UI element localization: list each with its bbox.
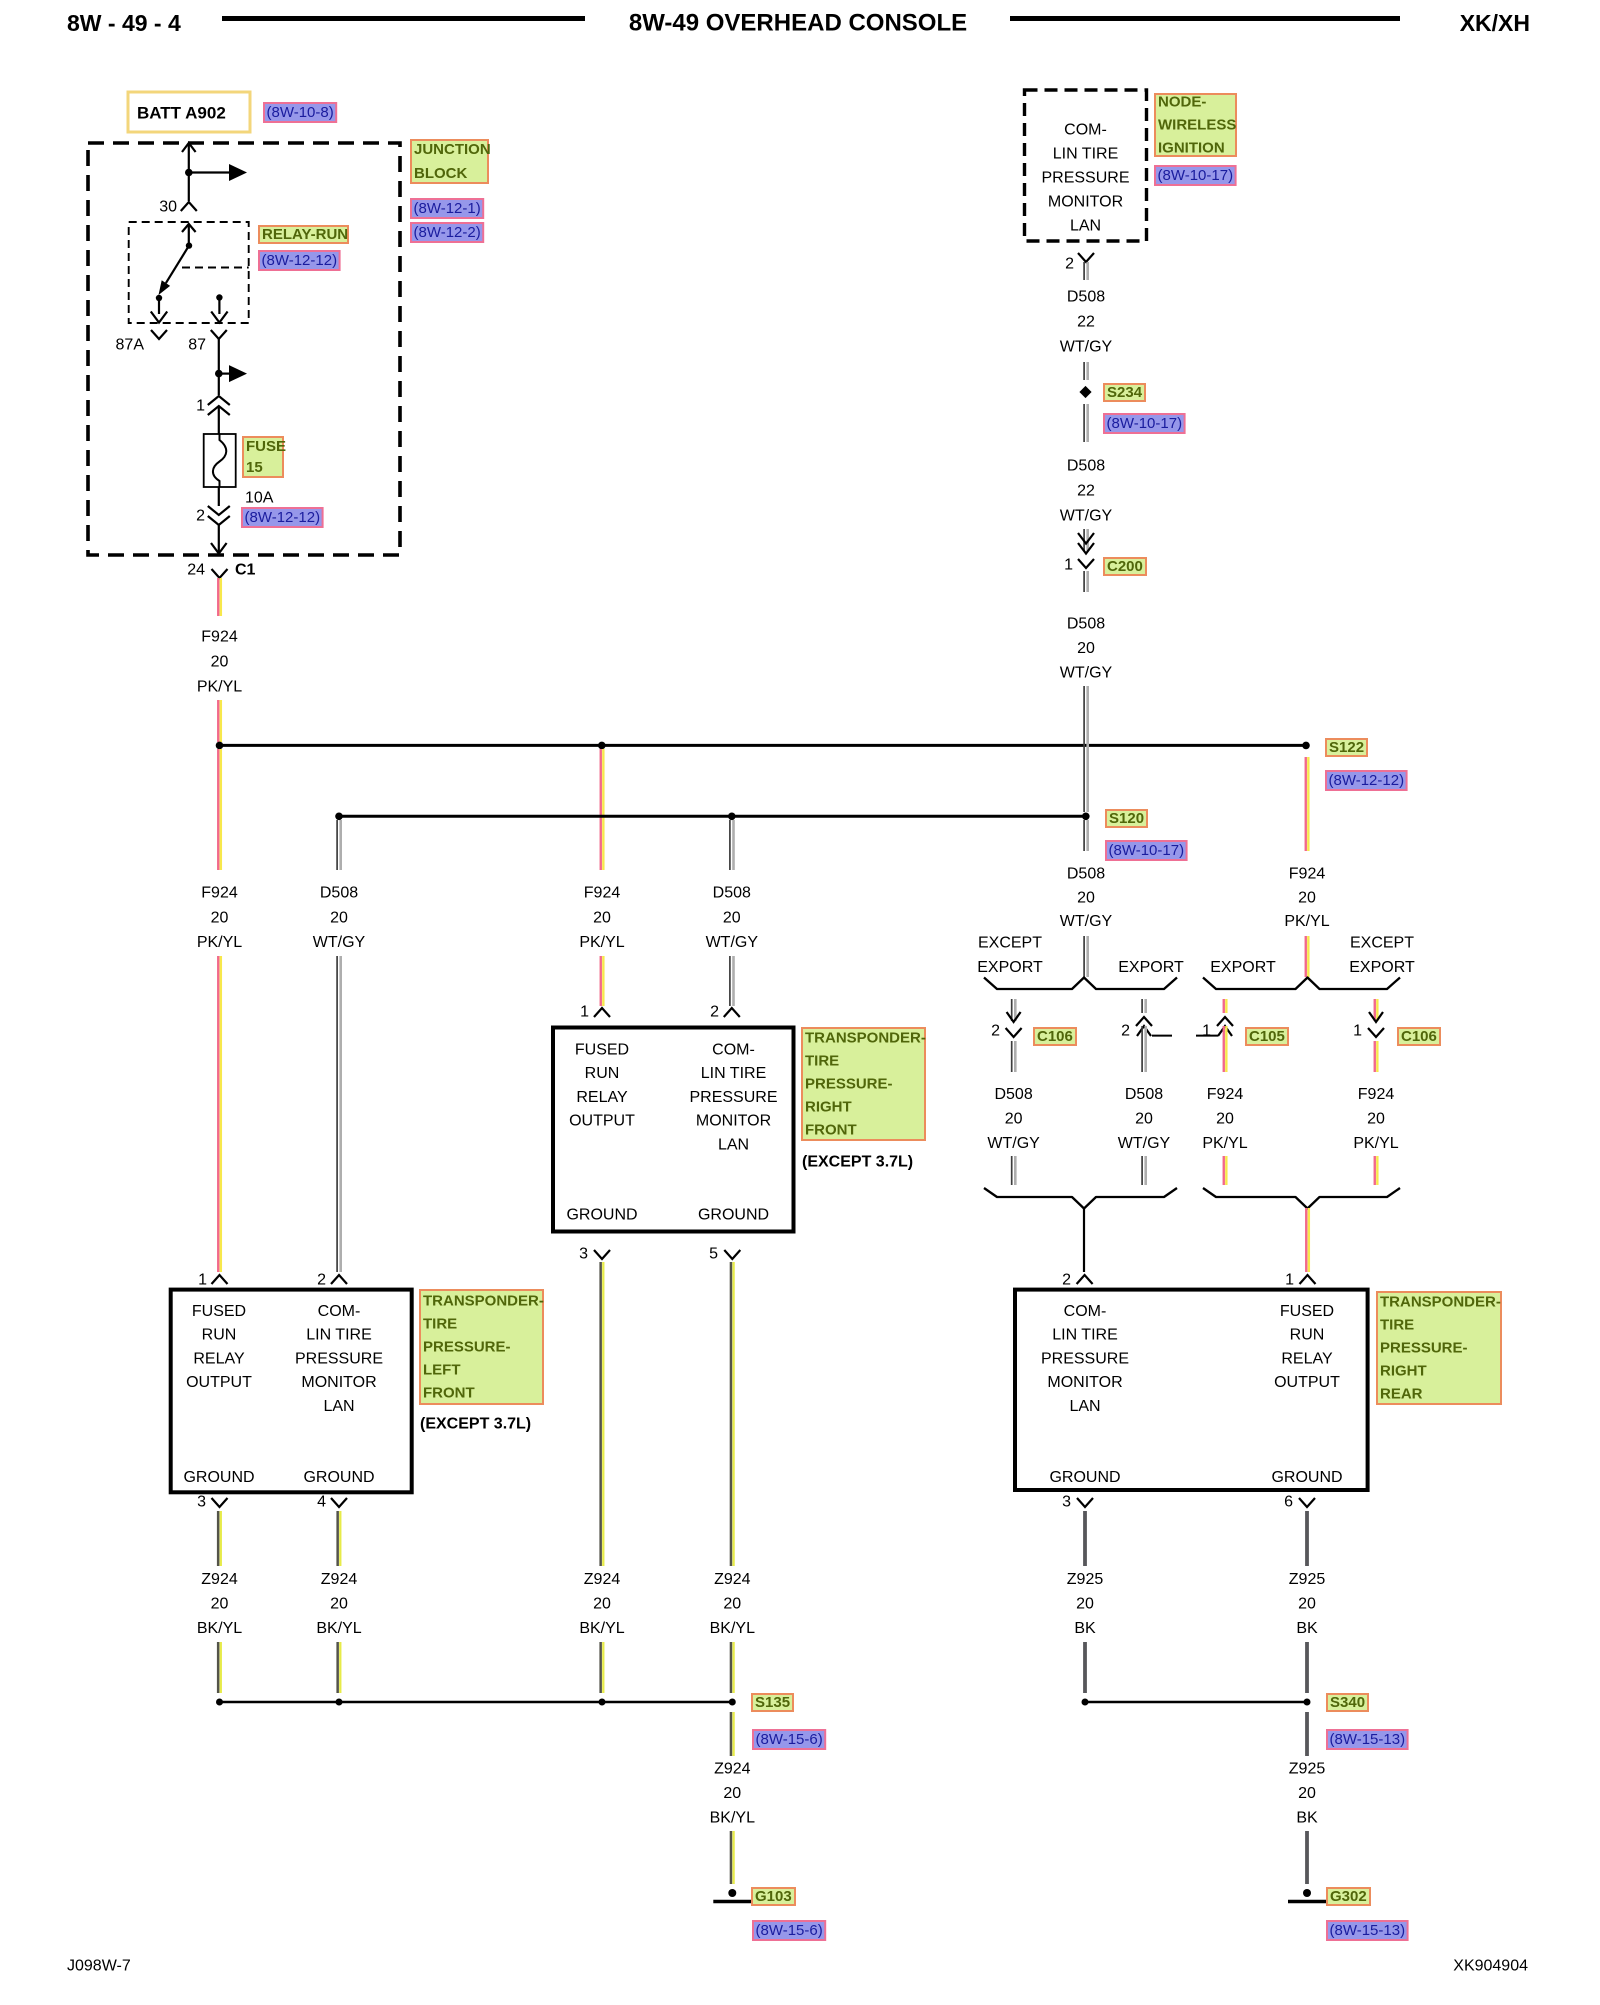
svg-text:OUTPUT: OUTPUT [186,1374,252,1391]
reference (8W-15-13) [1327,1730,1408,1749]
svg-text:PRESSURE-: PRESSURE- [1380,1340,1468,1357]
svg-text:Z925: Z925 [1289,1761,1326,1778]
relay switch arm [166,246,189,284]
svg-text:20: 20 [1135,1111,1153,1128]
svg-text:NODE-: NODE- [1158,94,1206,111]
relay contact 87 lead [216,294,222,300]
svg-text:S122: S122 [1329,739,1364,756]
svg-text:F924: F924 [1207,1086,1244,1103]
svg-text:PK/YL: PK/YL [1353,1135,1398,1152]
label TRANSPONDER-TIRE PRESSURE-RIGHT REAR [1377,1292,1501,1404]
svg-text:TRANSPONDER-: TRANSPONDER- [805,1030,926,1047]
wire D508 segment to pin 2 [336,956,338,1272]
svg-text:(8W-15-13): (8W-15-13) [1330,1922,1406,1939]
splice node [729,1699,736,1706]
svg-text:20: 20 [1298,890,1316,907]
svg-text:D508: D508 [1125,1086,1163,1103]
svg-text:D508: D508 [713,885,751,902]
svg-text:S340: S340 [1330,1694,1365,1711]
wire F924 segment to brace [1305,936,1307,977]
svg-text:C1: C1 [235,562,256,579]
reference (8W-15-13) [1327,1921,1408,1940]
wire Z925 segment pin 6 [1305,1511,1309,1566]
reference (8W-10-17) [1104,414,1185,433]
svg-text:Z924: Z924 [321,1571,358,1588]
svg-text:3: 3 [579,1246,588,1263]
svg-text:2: 2 [710,1004,719,1021]
splice S120 [1082,813,1090,821]
relay coil-side arrow up [182,224,196,232]
wire Z924 segment below S135 [730,1712,733,1756]
wire Z924 segment x=732.3 [730,1262,733,1566]
wire Z924 segment to ground bus [730,1642,733,1693]
svg-text:WT/GY: WT/GY [1060,508,1113,525]
wire F924 segment [217,700,219,742]
wire F924 segment to pin 1 [217,956,219,1272]
wire Z925 segment to ground bus [1305,1642,1309,1693]
brace split D508 [984,978,1177,990]
header rule right [1010,16,1400,21]
svg-text:F924: F924 [201,629,238,646]
svg-text:BK: BK [1074,1620,1096,1637]
svg-text:LAN: LAN [1069,1398,1100,1415]
svg-text:MONITOR: MONITOR [1048,194,1123,211]
wire Z925 segment below S340 [1305,1712,1309,1756]
reference (8W-10-8) [264,103,336,122]
svg-text:20: 20 [1298,1785,1316,1802]
svg-text:(EXCEPT 3.7L): (EXCEPT 3.7L) [420,1416,531,1433]
svg-text:3: 3 [1062,1494,1071,1511]
header rule left [222,16,585,21]
svg-text:FRONT: FRONT [423,1385,475,1402]
svg-text:EXCEPT: EXCEPT [1350,935,1414,952]
wire Z925 segment to ground [1305,1831,1309,1884]
svg-text:WT/GY: WT/GY [313,934,366,951]
wire D508 segment [1083,362,1085,380]
wire D508 segment from bus [729,820,731,870]
svg-text:2: 2 [196,508,205,525]
wire Z924 segment to ground [730,1831,733,1884]
node-wireless ignition module boundary [1025,90,1147,241]
svg-text:GROUND: GROUND [698,1207,769,1224]
label FUSE 15 [243,437,283,477]
svg-text:PK/YL: PK/YL [579,934,624,951]
svg-text:COM-: COM- [1064,1303,1107,1320]
wire Z924 segment x=339 [336,1511,339,1566]
branch wire D508 below C105 [1141,1026,1143,1072]
svg-text:LAN: LAN [323,1398,354,1415]
ground G302 [1303,1889,1311,1897]
battery feed box BATT A902 [128,92,250,132]
svg-text:(8W-15-6): (8W-15-6) [756,1922,823,1939]
svg-text:TRANSPONDER-: TRANSPONDER- [1380,1294,1501,1311]
splice node [1082,1699,1089,1706]
reference (8W-12-12) [242,508,323,527]
svg-text:TRANSPONDER-: TRANSPONDER- [423,1293,544,1310]
svg-text:WT/GY: WT/GY [987,1135,1040,1152]
wire D508 stub [1083,262,1085,280]
svg-text:PRESSURE: PRESSURE [1041,170,1129,187]
svg-text:Z925: Z925 [1289,1571,1326,1588]
svg-text:C106: C106 [1037,1028,1073,1045]
svg-text:C106: C106 [1401,1028,1437,1045]
wire link to C105 [1152,1035,1172,1037]
svg-text:20: 20 [593,1596,611,1613]
svg-text:(8W-15-13): (8W-15-13) [1330,1731,1406,1748]
reference (8W-12-2) [411,223,483,242]
svg-text:D508: D508 [1067,289,1105,306]
svg-text:20: 20 [1367,1111,1385,1128]
svg-text:IGNITION: IGNITION [1158,140,1225,157]
wire F924 segment to pin 1 [600,956,602,1006]
splice S135 [752,1694,793,1711]
wire Z924 segment to ground bus [599,1642,602,1693]
svg-text:BK/YL: BK/YL [710,1620,755,1637]
reference (8W-10-17) [1155,166,1236,185]
junction block boundary [88,143,400,555]
svg-text:LAN: LAN [718,1136,749,1153]
svg-text:RUN: RUN [1290,1327,1325,1344]
svg-text:D508: D508 [1067,458,1105,475]
svg-text:8W - 49 - 4: 8W - 49 - 4 [67,10,181,36]
svg-text:(8W-10-17): (8W-10-17) [1109,842,1185,859]
splice node on F924 bus [216,742,224,750]
branch wire D508 export [1141,999,1143,1013]
splice node [216,1699,223,1706]
wire D508 segment below S120 [1083,820,1085,851]
wire D508 merged to pin 2 [1083,1208,1085,1272]
wire F924 merged to pin 1 [1305,1208,1307,1272]
svg-text:BK/YL: BK/YL [316,1620,361,1637]
svg-text:FUSED: FUSED [192,1303,246,1320]
svg-text:30: 30 [159,199,177,216]
svg-text:PRESSURE: PRESSURE [1041,1350,1129,1367]
svg-text:G302: G302 [1330,1888,1367,1905]
svg-text:EXPORT: EXPORT [1210,959,1276,976]
svg-text:WT/GY: WT/GY [1118,1135,1171,1152]
wire D508 segment to pin 2 [729,956,731,1006]
svg-text:EXPORT: EXPORT [1349,959,1415,976]
svg-text:20: 20 [1076,1596,1094,1613]
svg-text:PK/YL: PK/YL [1284,913,1329,930]
svg-text:(8W-12-12): (8W-12-12) [1329,772,1405,789]
svg-text:C105: C105 [1249,1028,1285,1045]
svg-text:LIN TIRE: LIN TIRE [1053,146,1119,163]
svg-text:G103: G103 [755,1888,792,1905]
svg-text:GROUND: GROUND [183,1469,254,1486]
svg-text:LAN: LAN [1070,218,1101,235]
svg-text:TIRE: TIRE [805,1053,839,1070]
svg-text:1: 1 [1285,1272,1294,1289]
svg-text:1: 1 [580,1004,589,1021]
svg-text:22: 22 [1077,314,1095,331]
svg-text:COM-: COM- [1064,122,1107,139]
svg-text:RUN: RUN [585,1065,620,1082]
svg-text:BK/YL: BK/YL [579,1620,624,1637]
splice node to right front transponder [598,742,606,750]
wire 87 to fuse [218,339,220,374]
svg-text:(8W-15-6): (8W-15-6) [756,1731,823,1748]
svg-text:20: 20 [723,910,741,927]
svg-text:20: 20 [723,1785,741,1802]
svg-text:EXPORT: EXPORT [1118,959,1184,976]
branch wire F924 export [1223,999,1225,1013]
label JUNCTION BLOCK [411,140,488,183]
svg-text:20: 20 [211,910,229,927]
wire branch arrow right [189,171,229,173]
svg-text:2: 2 [1062,1272,1071,1289]
svg-text:(8W-10-8): (8W-10-8) [267,104,334,121]
branch wire D508 except-export [1011,999,1013,1021]
svg-text:FUSED: FUSED [1280,1303,1334,1320]
branch wire F924 below C105 [1223,1026,1225,1072]
svg-text:20: 20 [1216,1111,1234,1128]
svg-text:20: 20 [723,1596,741,1613]
relay common node [186,242,192,248]
splice S234 [1079,386,1091,398]
splice S122 [1302,742,1310,750]
svg-text:GROUND: GROUND [303,1469,374,1486]
svg-text:20: 20 [330,910,348,927]
svg-text:1: 1 [1064,557,1073,574]
svg-text:D508: D508 [320,885,358,902]
wire F924 segment below bus [217,749,219,870]
svg-text:20: 20 [593,910,611,927]
wire F924 segment below S122 [1305,757,1307,851]
svg-text:Z925: Z925 [1067,1571,1104,1588]
svg-text:FUSE: FUSE [246,438,286,455]
reference (8W-10-17) [1106,841,1187,860]
svg-text:2: 2 [991,1023,1000,1040]
svg-text:BLOCK: BLOCK [414,165,467,182]
label TRANSPONDER-TIRE PRESSURE-LEFT FRONT [420,1290,543,1404]
wire D508 segment [1083,404,1085,442]
wire Z925 segment pin 3 [1083,1511,1087,1566]
svg-text:20: 20 [330,1596,348,1613]
wire batt feed with up arrow [182,143,196,152]
svg-text:22: 22 [1077,483,1095,500]
reference (8W-12-12) [259,251,340,270]
svg-text:WT/GY: WT/GY [1060,913,1113,930]
relay frame divider [182,267,249,269]
svg-text:PRESSURE: PRESSURE [689,1089,777,1106]
svg-text:RUN: RUN [202,1327,237,1344]
svg-text:MONITOR: MONITOR [1047,1374,1122,1391]
svg-text:LEFT: LEFT [423,1362,461,1379]
svg-text:GROUND: GROUND [1049,1469,1120,1486]
brace split F924 [1203,978,1400,990]
splice node left front [335,813,343,821]
wire F924 horizontal bus [220,744,1307,747]
svg-text:Z924: Z924 [714,1571,751,1588]
svg-text:1: 1 [196,398,205,415]
wire Z924 segment x=602 [599,1262,602,1566]
splice node [336,1699,343,1706]
svg-text:(8W-10-17): (8W-10-17) [1107,415,1183,432]
svg-text:GROUND: GROUND [1271,1469,1342,1486]
svg-text:(8W-12-12): (8W-12-12) [262,252,338,269]
svg-text:20: 20 [1005,1111,1023,1128]
svg-text:1: 1 [198,1272,207,1289]
branch wire segments to merge brace [1011,1156,1013,1185]
svg-text:RELAY-RUN: RELAY-RUN [262,226,348,243]
svg-text:MONITOR: MONITOR [301,1374,376,1391]
svg-text:WT/GY: WT/GY [1060,339,1113,356]
bus 2: D508 horizontal bus [339,815,1086,818]
branch wire segments to merge brace [1223,1156,1225,1185]
svg-text:MONITOR: MONITOR [696,1113,771,1130]
svg-text:EXCEPT: EXCEPT [978,935,1042,952]
svg-text:(EXCEPT 3.7L): (EXCEPT 3.7L) [802,1154,913,1171]
svg-text:OUTPUT: OUTPUT [569,1113,635,1130]
svg-text:FUSED: FUSED [575,1042,629,1059]
svg-text:BK: BK [1296,1810,1318,1827]
svg-text:5: 5 [709,1246,718,1263]
svg-text:(8W-12-2): (8W-12-2) [414,224,481,241]
label RELAY-RUN [259,226,348,243]
svg-text:D508: D508 [1067,616,1105,633]
transponder left front box [171,1290,412,1493]
splice node right front [728,813,736,821]
wire Z924 segment to ground bus [336,1642,339,1693]
svg-text:8W-49 OVERHEAD CONSOLE: 8W-49 OVERHEAD CONSOLE [629,10,967,37]
svg-text:2: 2 [1065,256,1074,273]
svg-text:PRESSURE-: PRESSURE- [423,1339,511,1356]
relay contact 87A lead [156,295,162,301]
svg-text:PRESSURE-: PRESSURE- [805,1076,893,1093]
svg-text:LIN TIRE: LIN TIRE [701,1065,767,1082]
reference (8W-12-1) [411,199,483,218]
node junction to other circuits [185,169,193,177]
svg-text:F924: F924 [201,885,238,902]
svg-text:20: 20 [211,1596,229,1613]
svg-text:EXPORT: EXPORT [977,959,1043,976]
wire D508 segment to brace [1083,936,1085,977]
ground bus S135 [220,1701,733,1704]
svg-text:WT/GY: WT/GY [1060,665,1113,682]
svg-text:20: 20 [211,654,229,671]
reference (8W-12-12) [1326,771,1407,790]
ground bus S340 [1085,1701,1307,1704]
svg-text:20: 20 [1298,1596,1316,1613]
splice node [599,1699,606,1706]
ground G103 [728,1889,736,1897]
svg-text:1: 1 [1202,1023,1211,1040]
svg-text:WT/GY: WT/GY [706,934,759,951]
svg-text:20: 20 [1077,640,1095,657]
wire F924 segment C1 down [217,578,219,616]
svg-text:10A: 10A [245,490,274,507]
wire F924 segment from bus [600,749,602,870]
svg-text:COM-: COM- [318,1303,361,1320]
svg-text:RELAY: RELAY [1281,1350,1333,1367]
svg-text:87A: 87A [116,337,145,354]
svg-text:FRONT: FRONT [805,1122,857,1139]
svg-text:JUNCTION: JUNCTION [414,141,491,158]
svg-text:XK904904: XK904904 [1453,1958,1528,1975]
svg-text:LIN TIRE: LIN TIRE [1052,1327,1118,1344]
wire branch arrow right [219,373,229,375]
svg-text:Z924: Z924 [714,1761,751,1778]
fuse FUSE 15 10A [204,434,236,487]
svg-text:6: 6 [1284,1494,1293,1511]
svg-text:F924: F924 [1289,866,1326,883]
svg-text:TIRE: TIRE [423,1316,457,1333]
svg-text:Z924: Z924 [201,1571,238,1588]
svg-text:D508: D508 [994,1086,1032,1103]
svg-text:15: 15 [246,459,263,476]
wire fuse output with down arrow [218,487,220,506]
wire Z925 segment to ground bus [1083,1642,1087,1693]
wire D508 with double arrow into C200 [1083,529,1085,551]
wire D508 long segment crossing F924 bus [1083,686,1085,812]
svg-text:PRESSURE: PRESSURE [295,1350,383,1367]
branch wire D508 below C106 [1011,1041,1013,1072]
svg-text:24: 24 [187,562,205,579]
svg-text:BK/YL: BK/YL [710,1810,755,1827]
svg-text:4: 4 [317,1494,326,1511]
svg-text:XK/XH: XK/XH [1460,10,1530,36]
node branch [215,370,223,378]
reference (8W-15-6) [753,1730,825,1749]
label TRANSPONDER-TIRE PRESSURE-RIGHT FRONT [802,1028,925,1140]
svg-text:BK: BK [1296,1620,1318,1637]
svg-text:OUTPUT: OUTPUT [1274,1374,1340,1391]
svg-text:(8W-12-1): (8W-12-1) [414,200,481,217]
transponder right rear box [1015,1290,1368,1490]
svg-text:2: 2 [317,1272,326,1289]
svg-text:BATT A902: BATT A902 [137,104,226,123]
splice S340 [1304,1699,1311,1706]
svg-text:REAR: REAR [1380,1386,1423,1403]
svg-text:87: 87 [188,337,206,354]
svg-text:S120: S120 [1109,810,1144,827]
svg-text:1: 1 [1353,1023,1362,1040]
svg-text:WIRELESS: WIRELESS [1158,117,1236,134]
svg-text:J098W-7: J098W-7 [67,1958,131,1975]
svg-text:S135: S135 [755,1694,790,1711]
svg-text:D508: D508 [1067,866,1105,883]
wire Z924 segment x=219.5 [217,1511,220,1566]
svg-text:BK/YL: BK/YL [197,1620,242,1637]
brace merge D508 [984,1188,1177,1209]
svg-text:COM-: COM- [712,1042,755,1059]
svg-text:C200: C200 [1107,558,1143,575]
svg-text:GROUND: GROUND [566,1207,637,1224]
svg-text:F924: F924 [584,885,621,902]
wire D508 segment [1083,571,1085,592]
branch wire F924 except-export [1374,999,1376,1021]
svg-text:LIN TIRE: LIN TIRE [306,1327,372,1344]
svg-text:F924: F924 [1358,1086,1395,1103]
brace merge F924 [1203,1188,1400,1209]
relay RELAY-RUN boundary [129,222,249,323]
label NODE-WIRELESS IGNITION [1155,94,1236,156]
svg-text:Z924: Z924 [584,1571,621,1588]
svg-text:20: 20 [1077,890,1095,907]
svg-text:TIRE: TIRE [1380,1317,1414,1334]
svg-text:RELAY: RELAY [576,1089,628,1106]
svg-text:RIGHT: RIGHT [805,1099,852,1116]
reference (8W-15-6) [753,1921,825,1940]
svg-text:PK/YL: PK/YL [197,679,242,696]
wire D508 segment from bus [336,820,338,870]
svg-text:3: 3 [197,1494,206,1511]
svg-text:PK/YL: PK/YL [1202,1135,1247,1152]
svg-text:RELAY: RELAY [193,1350,245,1367]
branch wire F924 below C106 [1374,1041,1376,1072]
svg-text:(8W-10-17): (8W-10-17) [1158,167,1234,184]
